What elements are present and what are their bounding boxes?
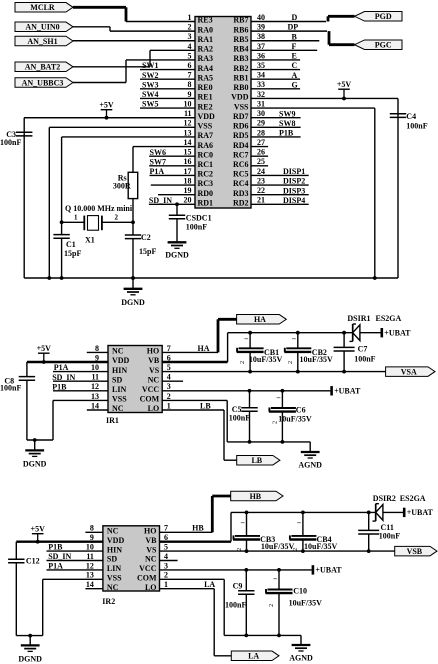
ground DGND (IR2) xyxy=(18,636,42,664)
svg-text:NC: NC xyxy=(107,527,119,536)
svg-text:RA2: RA2 xyxy=(198,45,214,54)
wire HO to HB flag xyxy=(160,496,231,532)
svg-text:4: 4 xyxy=(188,42,192,51)
svg-text:2: 2 xyxy=(115,214,119,222)
svg-text:13: 13 xyxy=(91,392,99,401)
svg-text:11: 11 xyxy=(91,373,99,382)
ground AGND (IR1) xyxy=(298,442,322,470)
wire AN_UBBC3 to pin5 xyxy=(73,60,126,83)
capacitor C11 100nF xyxy=(358,512,400,551)
svg-text:PGD: PGD xyxy=(375,12,392,21)
svg-text:15pF: 15pF xyxy=(139,247,156,256)
svg-text:DISP4: DISP4 xyxy=(283,196,305,205)
svg-text:AGND: AGND xyxy=(289,654,313,663)
svg-text:VDD: VDD xyxy=(231,93,249,102)
wire +5V rail to pin 11 xyxy=(24,118,195,278)
svg-text:40: 40 xyxy=(257,13,265,22)
ground AGND (IR2) xyxy=(289,635,313,662)
power +UBAT (VCC IR2) xyxy=(313,565,342,575)
svg-text:5: 5 xyxy=(164,543,168,552)
svg-text:RB0: RB0 xyxy=(233,83,248,92)
svg-text:23: 23 xyxy=(257,176,265,185)
node labels SW1-SW5 xyxy=(142,61,158,108)
svg-text:35: 35 xyxy=(257,61,265,70)
svg-text:RD1: RD1 xyxy=(198,198,214,207)
svg-text:1: 1 xyxy=(167,401,171,410)
IR1 pin names and numbers xyxy=(91,344,171,413)
svg-text:VSS: VSS xyxy=(112,395,127,404)
svg-text:18: 18 xyxy=(184,176,192,185)
svg-text:VS: VS xyxy=(146,545,157,554)
svg-text:RA3: RA3 xyxy=(198,54,214,63)
wire VS rail (IR1) to VSA xyxy=(162,370,385,374)
svg-text:2: 2 xyxy=(167,392,171,401)
svg-text:DSIR1: DSIR1 xyxy=(347,314,370,323)
capacitor C2 15pF xyxy=(125,222,157,280)
power +5V (IR1) xyxy=(37,344,52,364)
svg-text:12: 12 xyxy=(91,382,99,391)
svg-text:2: 2 xyxy=(268,604,275,607)
svg-text:COM: COM xyxy=(140,395,160,404)
svg-text:COM: COM xyxy=(137,574,157,583)
IR2 pin names and numbers xyxy=(86,524,168,592)
svg-text:AN_UBBC3: AN_UBBC3 xyxy=(22,78,64,87)
flag AN_UIN0 xyxy=(15,22,73,32)
svg-text:100nF: 100nF xyxy=(0,138,21,147)
svg-text:5: 5 xyxy=(167,363,171,372)
svg-text:2: 2 xyxy=(287,361,294,364)
capacitor CB4 10uF/35V xyxy=(289,512,337,551)
svg-text:Q 10.000 MHz mini: Q 10.000 MHz mini xyxy=(65,204,133,213)
flag VSB xyxy=(395,546,437,556)
svg-text:2: 2 xyxy=(188,23,192,32)
svg-text:38: 38 xyxy=(257,32,265,41)
svg-text:HB: HB xyxy=(250,492,262,501)
capacitor C10 10uF/35V xyxy=(266,570,323,636)
diode DSIR2 ES2GA xyxy=(373,494,426,521)
power +5V (top right) xyxy=(337,80,352,100)
svg-text:HIN: HIN xyxy=(112,366,127,375)
capacitor C8 100nF xyxy=(0,362,35,440)
ground DGND (below CSDC1) xyxy=(165,242,189,259)
wire VDD pin32 rail xyxy=(397,98,399,278)
gate driver IR1 body xyxy=(106,346,162,426)
wire COM to AGND rail (IR2) xyxy=(160,579,302,637)
svg-text:RB2: RB2 xyxy=(233,64,248,73)
wire LO to LA flag (IR2) xyxy=(160,589,232,656)
node label HB xyxy=(192,524,204,533)
node labels DISP1-DISP4 xyxy=(283,167,305,205)
svg-text:10uF/35V: 10uF/35V xyxy=(249,355,283,364)
svg-text:RE2: RE2 xyxy=(198,102,213,111)
svg-text:P1A: P1A xyxy=(54,363,69,372)
svg-text:RA6: RA6 xyxy=(198,141,214,150)
flag LB xyxy=(237,455,280,465)
svg-text:VCC: VCC xyxy=(139,564,157,573)
svg-text:VSB: VSB xyxy=(407,547,423,556)
node labels P1A SD_IN P1B (IR1) xyxy=(52,363,75,391)
svg-text:10uF/35V: 10uF/35V xyxy=(261,542,295,551)
svg-text:P1B: P1B xyxy=(48,543,63,552)
wire OSC2 pin14 to Rs xyxy=(132,147,134,173)
svg-text:NC: NC xyxy=(107,583,119,592)
svg-text:DGND: DGND xyxy=(121,298,145,307)
svg-text:VS: VS xyxy=(149,366,160,375)
wire VCC rail (IR2) xyxy=(160,568,312,572)
svg-text:C7: C7 xyxy=(358,345,368,354)
svg-text:SW9: SW9 xyxy=(279,109,295,118)
svg-text:VCC: VCC xyxy=(142,385,160,394)
svg-text:NC: NC xyxy=(112,404,124,413)
svg-text:C: C xyxy=(292,61,298,70)
svg-text:17: 17 xyxy=(184,167,192,176)
IR2 left pin wires xyxy=(16,532,103,588)
flag AN_UBBC3 xyxy=(15,78,73,88)
node labels SW9 SW8 P1B xyxy=(279,109,295,137)
node label LA xyxy=(204,580,215,589)
svg-text:C12: C12 xyxy=(26,557,40,566)
svg-text:AN_SH1: AN_SH1 xyxy=(27,37,57,46)
svg-text:LB: LB xyxy=(251,456,262,465)
svg-text:LO: LO xyxy=(148,404,160,413)
capacitor CB1 10uF/35V xyxy=(237,333,283,372)
svg-text:C1: C1 xyxy=(66,240,76,249)
svg-text:LA: LA xyxy=(204,580,215,589)
svg-text:−: − xyxy=(244,335,249,344)
wire NC pin4 stub xyxy=(162,380,183,382)
wire PGD xyxy=(328,16,355,21)
svg-text:RC5: RC5 xyxy=(233,170,249,179)
svg-text:+UBAT: +UBAT xyxy=(315,566,342,575)
svg-text:VB: VB xyxy=(145,536,157,545)
svg-text:100nF: 100nF xyxy=(229,414,250,423)
svg-text:SW7: SW7 xyxy=(150,157,166,166)
crystal X1 xyxy=(65,204,133,245)
microcontroller U1 body xyxy=(195,17,251,209)
svg-text:10uF/35V: 10uF/35V xyxy=(304,542,338,551)
svg-text:100nF: 100nF xyxy=(0,384,21,393)
svg-text:−: − xyxy=(240,519,245,528)
svg-text:13: 13 xyxy=(86,571,94,580)
svg-text:19: 19 xyxy=(184,186,192,195)
wire NC pin4 stub (IR2) xyxy=(160,560,178,562)
capacitor C6 10uF/35V xyxy=(269,391,312,442)
svg-text:+UBAT: +UBAT xyxy=(334,387,361,396)
svg-text:29: 29 xyxy=(257,119,265,128)
flag VSA xyxy=(386,367,435,377)
svg-text:DGND: DGND xyxy=(23,460,47,469)
svg-text:RB1: RB1 xyxy=(233,73,248,82)
svg-text:LA: LA xyxy=(248,652,259,661)
svg-text:RD4: RD4 xyxy=(233,141,249,150)
svg-text:27: 27 xyxy=(257,138,265,147)
svg-text:34: 34 xyxy=(257,71,265,80)
svg-text:22: 22 xyxy=(257,186,265,195)
wire LO to LB flag xyxy=(162,410,237,460)
svg-text:RA0: RA0 xyxy=(198,25,214,34)
svg-text:SD: SD xyxy=(107,555,117,564)
svg-text:RC7: RC7 xyxy=(233,150,249,159)
svg-text:39: 39 xyxy=(257,23,265,32)
svg-text:P1A: P1A xyxy=(150,167,165,176)
svg-text:P1B: P1B xyxy=(279,129,294,138)
svg-text:HA: HA xyxy=(198,344,210,353)
svg-text:100nF: 100nF xyxy=(379,532,400,541)
svg-text:RA1: RA1 xyxy=(198,35,214,44)
svg-text:F: F xyxy=(292,42,297,51)
svg-text:24: 24 xyxy=(257,167,265,176)
svg-text:VSA: VSA xyxy=(401,367,417,376)
svg-text:RB6: RB6 xyxy=(233,25,248,34)
svg-text:21: 21 xyxy=(257,196,265,205)
wire VCC rail (IR1) xyxy=(162,389,330,393)
capacitor CB2 10uF/35V xyxy=(284,333,333,372)
wire AN_BAT2 to pin4 xyxy=(73,50,150,66)
power +UBAT (VB IR1) xyxy=(382,328,411,338)
wire AN_UIN0 to pin2 xyxy=(73,27,110,31)
svg-text:P1B: P1B xyxy=(52,382,67,391)
capacitor C5 100nF xyxy=(229,391,258,442)
svg-text:25: 25 xyxy=(257,157,265,166)
wire MCLR to pin1 xyxy=(73,7,126,21)
svg-text:SW3: SW3 xyxy=(142,80,158,89)
svg-text:3: 3 xyxy=(188,32,192,41)
svg-text:DISP2: DISP2 xyxy=(283,177,305,186)
svg-text:AN_UIN0: AN_UIN0 xyxy=(25,23,59,32)
svg-text:DISP1: DISP1 xyxy=(283,167,305,176)
ground DGND (top section rail) xyxy=(121,276,145,307)
svg-text:10: 10 xyxy=(86,543,94,552)
svg-text:P1A: P1A xyxy=(48,562,63,571)
svg-text:DSIR2: DSIR2 xyxy=(373,494,396,503)
svg-text:12: 12 xyxy=(184,119,192,128)
wire ground rail (top section) xyxy=(24,277,398,279)
svg-text:VSS: VSS xyxy=(198,122,213,131)
svg-text:RD5: RD5 xyxy=(233,131,249,140)
svg-text:RA7: RA7 xyxy=(198,131,214,140)
svg-text:+5V: +5V xyxy=(31,525,46,534)
svg-text:10: 10 xyxy=(91,363,99,372)
wire diode to UBAT xyxy=(360,332,381,334)
svg-text:RC2: RC2 xyxy=(198,170,214,179)
wire diode to UBAT (IR2) xyxy=(383,511,403,513)
svg-text:30: 30 xyxy=(257,109,265,118)
svg-text:15pF: 15pF xyxy=(64,249,81,258)
svg-text:9: 9 xyxy=(188,90,192,99)
svg-text:15: 15 xyxy=(184,148,192,157)
svg-text:2: 2 xyxy=(272,421,279,424)
svg-text:C10: C10 xyxy=(293,587,307,596)
svg-text:RA5: RA5 xyxy=(198,73,214,82)
svg-text:G: G xyxy=(292,80,298,89)
svg-text:DGND: DGND xyxy=(18,655,42,664)
svg-text:14: 14 xyxy=(86,580,94,589)
wire COM to AGND rail (IR1) xyxy=(162,400,310,443)
svg-text:8: 8 xyxy=(95,344,99,353)
svg-text:3: 3 xyxy=(167,382,171,391)
flag LA xyxy=(231,651,279,661)
flag PGD xyxy=(355,12,403,22)
flag MCLR xyxy=(15,3,73,13)
wire VSS IR1 to ground xyxy=(27,400,53,442)
wire VSS pin12 down xyxy=(47,127,51,280)
wire HO to HA flag xyxy=(162,319,236,352)
svg-text:CSDC1: CSDC1 xyxy=(186,214,212,223)
wire VSS IR2 to ground xyxy=(16,579,42,637)
flag AN_SH1 xyxy=(15,36,73,46)
svg-text:C4: C4 xyxy=(406,112,416,121)
flag AN_BAT2 xyxy=(15,62,73,72)
svg-text:E: E xyxy=(292,52,297,61)
wire VS rail (IR2) to VSB xyxy=(160,549,395,553)
svg-text:+UBAT: +UBAT xyxy=(407,508,434,517)
svg-text:7: 7 xyxy=(167,344,171,353)
svg-text:32: 32 xyxy=(257,90,265,99)
svg-text:SW8: SW8 xyxy=(279,119,295,128)
svg-text:RE1: RE1 xyxy=(198,93,213,102)
svg-text:10uF/35V: 10uF/35V xyxy=(289,599,323,608)
diode DSIR1 ES2GA xyxy=(347,314,401,341)
segment node labels D DP B F E C A G xyxy=(288,13,299,89)
svg-text:HA: HA xyxy=(254,315,266,324)
svg-text:20: 20 xyxy=(184,196,192,205)
capacitor C3 xyxy=(0,130,32,147)
svg-text:VDD: VDD xyxy=(112,356,130,365)
svg-text:PGC: PGC xyxy=(375,41,392,50)
svg-text:VSS: VSS xyxy=(234,102,249,111)
svg-text:AGND: AGND xyxy=(298,461,322,470)
wire crystal row xyxy=(62,221,133,223)
svg-text:100nF: 100nF xyxy=(186,223,207,232)
svg-text:ES2GA: ES2GA xyxy=(400,494,426,503)
U1 left pin wires xyxy=(24,22,195,205)
svg-text:RD6: RD6 xyxy=(233,122,249,131)
svg-text:+UBAT: +UBAT xyxy=(384,329,411,338)
svg-text:RB7: RB7 xyxy=(233,16,248,25)
svg-text:36: 36 xyxy=(257,51,265,60)
svg-text:X1: X1 xyxy=(85,236,95,245)
svg-text:1: 1 xyxy=(188,13,192,22)
svg-text:−: − xyxy=(297,519,302,528)
svg-text:4: 4 xyxy=(167,373,171,382)
svg-text:33: 33 xyxy=(257,80,265,89)
svg-text:RA4: RA4 xyxy=(198,64,214,73)
svg-text:2: 2 xyxy=(239,361,246,364)
svg-text:1: 1 xyxy=(74,214,78,222)
power +UBAT (VCC IR1) xyxy=(332,386,361,396)
svg-text:SW4: SW4 xyxy=(142,90,158,99)
svg-text:12: 12 xyxy=(86,561,94,570)
svg-text:RC4: RC4 xyxy=(233,179,249,188)
svg-text:ES2GA: ES2GA xyxy=(376,314,402,323)
svg-text:RD2: RD2 xyxy=(233,198,249,207)
svg-text:VDD: VDD xyxy=(107,536,125,545)
U1 pin names and numbers xyxy=(184,13,266,208)
wire VSS pin31 down xyxy=(373,108,377,280)
svg-text:14: 14 xyxy=(91,401,99,410)
svg-text:NC: NC xyxy=(148,375,160,384)
svg-text:3: 3 xyxy=(164,561,168,570)
svg-text:28: 28 xyxy=(257,128,265,137)
svg-text:RB3: RB3 xyxy=(233,54,248,63)
svg-text:HB: HB xyxy=(192,524,204,533)
resistor Rs 300R xyxy=(113,172,138,198)
node label SD_IN xyxy=(149,196,172,205)
svg-text:RE0: RE0 xyxy=(198,83,213,92)
svg-text:10uF/35V: 10uF/35V xyxy=(278,415,312,424)
svg-text:LB: LB xyxy=(200,401,211,410)
svg-text:SD_IN: SD_IN xyxy=(149,196,172,205)
capacitor C1 15pF xyxy=(53,222,81,280)
svg-text:SD_IN: SD_IN xyxy=(52,373,75,382)
svg-text:C6: C6 xyxy=(296,406,306,415)
svg-text:−: − xyxy=(273,575,278,584)
svg-text:HIN: HIN xyxy=(107,545,122,554)
svg-text:5: 5 xyxy=(188,51,192,60)
svg-text:D: D xyxy=(292,13,298,22)
svg-text:IR2: IR2 xyxy=(102,597,115,606)
svg-text:8: 8 xyxy=(90,524,94,533)
IR1 left pin wires xyxy=(27,352,108,410)
svg-text:AN_BAT2: AN_BAT2 xyxy=(25,63,60,72)
svg-text:RD7: RD7 xyxy=(233,112,249,121)
svg-text:VSS: VSS xyxy=(107,574,122,583)
ground DGND (IR1) xyxy=(23,440,47,469)
svg-text:NC: NC xyxy=(145,555,157,564)
svg-text:A: A xyxy=(292,71,298,80)
svg-text:B: B xyxy=(292,32,298,41)
node label HA xyxy=(198,344,210,353)
wire VB rail (IR1) xyxy=(162,331,353,362)
svg-text:LIN: LIN xyxy=(107,564,121,573)
svg-text:RB4: RB4 xyxy=(233,45,248,54)
svg-text:11: 11 xyxy=(184,109,192,118)
svg-text:31: 31 xyxy=(257,99,265,108)
svg-text:2: 2 xyxy=(164,571,168,580)
U1 right pin wires xyxy=(251,22,398,205)
svg-text:C2: C2 xyxy=(141,233,151,242)
svg-text:−: − xyxy=(292,335,297,344)
svg-text:RB5: RB5 xyxy=(233,35,248,44)
svg-text:100nF: 100nF xyxy=(406,122,427,131)
svg-text:7: 7 xyxy=(188,71,192,80)
power +5V (IR2) xyxy=(31,525,46,544)
capacitor C9 100nF xyxy=(225,570,255,636)
svg-text:SD_IN: SD_IN xyxy=(48,552,71,561)
svg-text:−: − xyxy=(276,394,281,403)
svg-text:RE3: RE3 xyxy=(198,16,213,25)
svg-text:RC1: RC1 xyxy=(198,160,214,169)
svg-text:RC3: RC3 xyxy=(198,179,214,188)
svg-text:300R: 300R xyxy=(113,182,131,191)
svg-text:MCLR: MCLR xyxy=(30,3,55,12)
svg-text:DISP3: DISP3 xyxy=(283,186,305,195)
capacitor C4 100nF xyxy=(390,112,428,131)
svg-text:LIN: LIN xyxy=(112,385,126,394)
node labels P1B SD_IN P1A (IR2) xyxy=(48,543,71,571)
svg-text:SD: SD xyxy=(112,375,122,384)
svg-text:RD0: RD0 xyxy=(198,189,214,198)
svg-text:SW6: SW6 xyxy=(150,148,166,157)
svg-text:14: 14 xyxy=(184,138,192,147)
flag HB xyxy=(231,491,283,501)
svg-text:10: 10 xyxy=(184,99,192,108)
svg-text:1: 1 xyxy=(164,580,168,589)
flag PGC xyxy=(355,40,403,50)
svg-text:SW5: SW5 xyxy=(142,100,158,109)
svg-text:VB: VB xyxy=(148,356,160,365)
svg-text:VDD: VDD xyxy=(198,112,216,121)
